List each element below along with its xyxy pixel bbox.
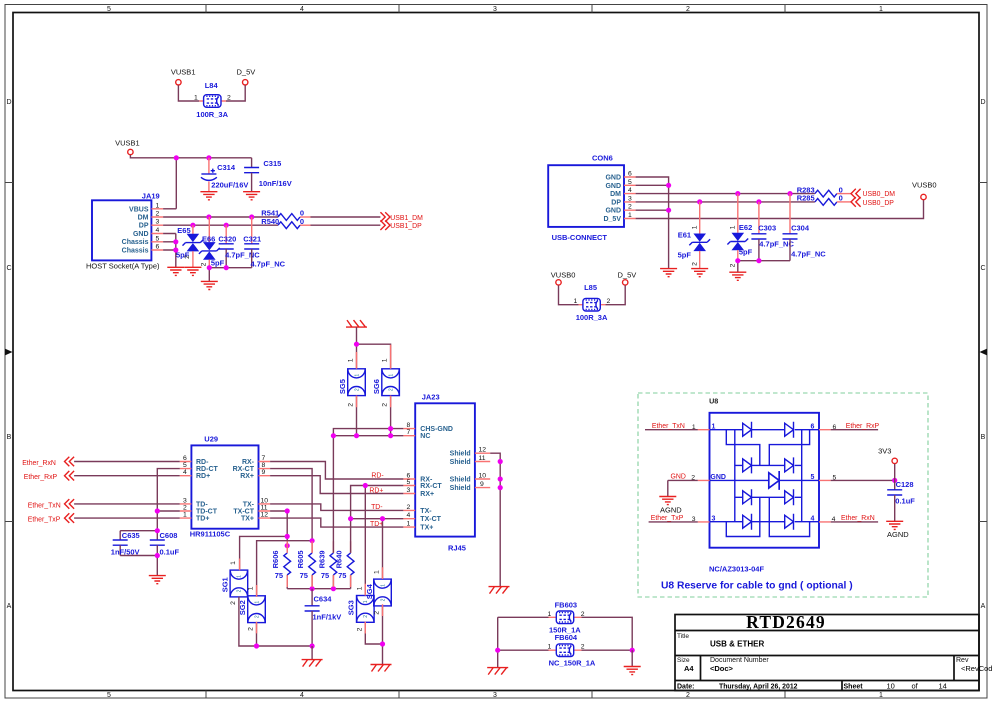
ground under E65 xyxy=(184,267,201,275)
wire SG5 pin2 to CHS net xyxy=(356,396,358,436)
svg-text:RD+: RD+ xyxy=(369,487,383,494)
svg-text:Ether_TxP: Ether_TxP xyxy=(28,517,61,524)
offpage USB1_DM xyxy=(380,212,423,222)
wire SG3/SG4 pin2 down xyxy=(365,606,382,664)
svg-text:14: 14 xyxy=(939,682,947,691)
svg-text:RX-CT: RX-CT xyxy=(420,483,442,490)
svg-text:R639: R639 xyxy=(317,550,326,568)
svg-text:11: 11 xyxy=(479,455,486,462)
svg-text:DP: DP xyxy=(611,199,621,206)
resistor R606 75 xyxy=(271,550,290,588)
ground under C608 xyxy=(149,576,166,584)
svg-text:3: 3 xyxy=(183,497,187,504)
svg-text:U8 Reserve for cable to gnd (: U8 Reserve for cable to gnd ( optional ) xyxy=(661,581,853,592)
svg-text:5: 5 xyxy=(407,479,411,486)
ground under E62 bus xyxy=(729,272,746,280)
svg-text:D: D xyxy=(980,99,985,106)
wire DM net xyxy=(163,216,278,218)
offpage USB1_DP xyxy=(380,220,422,230)
svg-text:Shield: Shield xyxy=(450,451,471,458)
svg-text:2: 2 xyxy=(247,627,254,631)
svg-text:R640: R640 xyxy=(335,550,344,568)
wire USB0 DP net xyxy=(636,201,815,203)
svg-text:RD-CT: RD-CT xyxy=(196,466,218,473)
svg-text:2: 2 xyxy=(230,601,237,605)
wire JA23 RX-CT to R640/SG3 xyxy=(351,486,404,596)
svg-text:1: 1 xyxy=(230,561,237,565)
transformer U29 HR911105C xyxy=(180,435,270,539)
svg-text:2: 2 xyxy=(156,211,160,218)
resistor R605 75 xyxy=(296,550,315,588)
ferrite bead L84 xyxy=(194,81,231,119)
svg-text:DM: DM xyxy=(610,191,621,198)
diode E65 xyxy=(176,225,203,267)
svg-text:6: 6 xyxy=(156,244,160,251)
wire U8 pin4 Ether_RxN xyxy=(831,521,878,523)
power VUSB0 (L85) xyxy=(551,271,576,285)
ground under FB right xyxy=(624,667,641,675)
svg-text:USB1_DM: USB1_DM xyxy=(390,215,423,222)
wire SG2 pin2 down xyxy=(256,622,258,646)
wire FB right to ground xyxy=(631,650,633,666)
offpage USB0_DM xyxy=(851,189,895,199)
svg-text:RX+: RX+ xyxy=(240,473,254,480)
chassis ground under JA23 shield xyxy=(489,587,510,594)
chassis ground top (SG5/SG6) xyxy=(346,320,367,327)
wire RX- staircase xyxy=(270,462,403,480)
svg-text:2: 2 xyxy=(686,6,690,13)
svg-text:USB1_DP: USB1_DP xyxy=(390,223,422,230)
svg-text:Ether_TxN: Ether_TxN xyxy=(652,423,685,430)
wire DP net xyxy=(163,224,278,226)
wire C634 to chassis xyxy=(311,646,313,659)
wire SG2 branch xyxy=(257,541,313,597)
chassis ground under FB left xyxy=(487,668,508,675)
spark gap SG4 xyxy=(365,570,391,615)
svg-text:GND: GND xyxy=(605,208,621,215)
wire cap top/bottom buses xyxy=(120,531,157,576)
svg-text:Ether_RxN: Ether_RxN xyxy=(22,460,56,467)
capacitor C304 xyxy=(783,194,827,261)
svg-text:FB603: FB603 xyxy=(555,600,578,609)
svg-text:75: 75 xyxy=(300,571,308,580)
svg-text:RD-: RD- xyxy=(196,459,209,466)
svg-text:VUSB1: VUSB1 xyxy=(171,68,196,77)
capacitor C314 xyxy=(201,158,249,192)
svg-text:10: 10 xyxy=(479,473,487,480)
svg-text:1: 1 xyxy=(348,358,355,362)
wire 3V3 to node xyxy=(894,464,896,481)
svg-text:C634: C634 xyxy=(314,595,333,604)
svg-text:1nF/1kV: 1nF/1kV xyxy=(313,613,342,622)
capacitor C635 xyxy=(111,531,140,557)
capacitor C634 xyxy=(305,589,342,646)
svg-text:Shield: Shield xyxy=(450,459,471,466)
ground AGND under U8 pin2 xyxy=(659,497,682,515)
svg-text:A: A xyxy=(981,603,986,610)
svg-text:220uF/16V: 220uF/16V xyxy=(211,180,248,189)
svg-text:5: 5 xyxy=(156,235,160,242)
svg-text:1: 1 xyxy=(356,586,363,590)
svg-text:A: A xyxy=(7,603,12,610)
spark gap SG3 xyxy=(347,586,374,631)
svg-text:U29: U29 xyxy=(204,435,218,444)
svg-text:1: 1 xyxy=(729,225,736,229)
svg-text:1: 1 xyxy=(574,298,578,305)
svg-text:12: 12 xyxy=(261,512,269,519)
svg-text:B: B xyxy=(7,434,12,441)
svg-text:of: of xyxy=(912,682,919,691)
power 3V3 xyxy=(878,447,897,464)
wire Ether_TxP into U8 pin3 xyxy=(649,521,698,523)
chassis ground under C634 xyxy=(302,660,323,667)
svg-text:5pF: 5pF xyxy=(211,259,225,268)
wire CON6 gnd pins xyxy=(636,177,669,269)
power VUSB1 (main) xyxy=(115,139,140,155)
ground under C314 xyxy=(200,192,217,200)
svg-text:2: 2 xyxy=(607,298,611,305)
svg-text:2: 2 xyxy=(691,262,698,266)
svg-text:RD-: RD- xyxy=(371,473,383,480)
wire D_5V to L85 pin2 xyxy=(605,285,625,304)
pin stubs SG/R group xyxy=(240,541,351,633)
svg-text:1: 1 xyxy=(247,586,254,590)
svg-text:2: 2 xyxy=(581,611,585,618)
wire U8 pin5 to C128 node xyxy=(831,479,895,481)
svg-text:NC/AZ3013-04F: NC/AZ3013-04F xyxy=(709,565,764,574)
connector JA23 RJ45 xyxy=(403,393,490,553)
svg-text:1: 1 xyxy=(407,521,411,528)
wire Ether_RxN xyxy=(74,461,180,463)
wire Ether_TxN into U8 pin1 xyxy=(645,429,698,431)
svg-text:2: 2 xyxy=(407,504,411,511)
wire USB0 DM net xyxy=(636,193,815,195)
svg-text:C635: C635 xyxy=(122,531,140,540)
svg-text:D_5V: D_5V xyxy=(603,216,621,223)
resistor R540 0 xyxy=(261,217,304,229)
svg-text:10: 10 xyxy=(261,497,269,504)
svg-text:CON6: CON6 xyxy=(592,153,613,162)
svg-text:SG3: SG3 xyxy=(347,600,356,615)
svg-text:1: 1 xyxy=(382,358,389,362)
wire TD-CT join xyxy=(157,510,180,512)
svg-text:VUSB1: VUSB1 xyxy=(115,139,140,148)
svg-text:7: 7 xyxy=(262,455,266,462)
svg-text:1: 1 xyxy=(548,611,552,618)
resistor R285 0 xyxy=(797,194,851,206)
wire Ether_RxP xyxy=(74,475,180,477)
offpage Ether_TxP xyxy=(28,513,74,523)
svg-text:1: 1 xyxy=(879,692,883,699)
svg-text:4: 4 xyxy=(300,692,304,699)
svg-text:0.1uF: 0.1uF xyxy=(160,547,180,556)
resistor R541 0 xyxy=(261,209,304,221)
svg-text:0.1uF: 0.1uF xyxy=(895,497,915,506)
svg-text:TX-: TX- xyxy=(420,508,432,515)
svg-text:1: 1 xyxy=(548,644,552,651)
node VBUS junctions xyxy=(174,155,179,160)
svg-text:E66: E66 xyxy=(202,234,215,243)
svg-text:R605: R605 xyxy=(296,550,305,568)
svg-text:2: 2 xyxy=(581,644,585,651)
wire Ether_TxP xyxy=(74,517,180,519)
svg-text:Ether_TxP: Ether_TxP xyxy=(651,515,684,522)
wire JA19 gnd pins xyxy=(163,234,176,268)
ground under E66 bus xyxy=(201,281,218,289)
U8 optional region dashed box xyxy=(638,393,928,597)
capacitor C303 xyxy=(751,202,794,261)
wire SG1 pin2 down xyxy=(239,597,312,646)
spark gap SG6 xyxy=(372,358,400,407)
wire SG1 branch xyxy=(240,536,288,570)
svg-text:L85: L85 xyxy=(584,283,597,292)
power VUSB1 (L84) xyxy=(171,68,196,86)
wire E62/C303/C304 ground bus xyxy=(738,261,790,273)
svg-text:TX-CT: TX-CT xyxy=(420,516,441,523)
svg-text:USB & ETHER: USB & ETHER xyxy=(710,640,764,649)
svg-text:5pF: 5pF xyxy=(678,250,692,259)
svg-text:11: 11 xyxy=(261,505,268,512)
ferrite bead L85 xyxy=(574,283,611,322)
svg-text:1: 1 xyxy=(691,225,698,229)
svg-text:Ether_RxP: Ether_RxP xyxy=(24,474,58,481)
svg-text:VBUS: VBUS xyxy=(129,206,149,213)
svg-text:E65: E65 xyxy=(177,226,190,235)
svg-text:DP: DP xyxy=(139,223,149,230)
svg-text:D_5V: D_5V xyxy=(237,68,256,77)
resistor R640 75 xyxy=(335,550,354,588)
svg-text:AGND: AGND xyxy=(887,530,909,539)
offpage Ether_RxP xyxy=(24,471,74,481)
svg-text:USB-CONNECT: USB-CONNECT xyxy=(552,233,608,242)
svg-text:NC: NC xyxy=(420,433,430,440)
svg-text:CHS-GND: CHS-GND xyxy=(420,426,453,433)
svg-text:Shield: Shield xyxy=(450,477,471,484)
svg-text:L84: L84 xyxy=(205,81,219,90)
wire VBUS rail xyxy=(130,155,251,209)
svg-text:8: 8 xyxy=(262,462,266,469)
svg-text:<Doc>: <Doc> xyxy=(710,664,734,673)
svg-text:2: 2 xyxy=(628,204,632,211)
svg-text:6: 6 xyxy=(183,455,187,462)
svg-text:2: 2 xyxy=(348,403,355,407)
svg-text:C608: C608 xyxy=(160,531,178,540)
svg-text:2: 2 xyxy=(686,692,690,699)
svg-text:Document Number: Document Number xyxy=(710,657,769,664)
diode array U8 NC/AZ3013-04F xyxy=(691,397,836,574)
svg-text:TD+: TD+ xyxy=(196,516,209,523)
capacitor C315 xyxy=(244,158,292,192)
svg-text:DM: DM xyxy=(138,215,149,222)
svg-text:Size: Size xyxy=(677,657,690,664)
wire D_5V net to VUSB0 xyxy=(636,200,924,219)
svg-text:RD+: RD+ xyxy=(196,473,210,480)
svg-text:RX+: RX+ xyxy=(420,491,434,498)
wire VUSB1 to L84 pin1 xyxy=(178,85,199,101)
svg-text:Sheet: Sheet xyxy=(844,684,864,691)
wire JA23 shield pins xyxy=(490,453,500,586)
capacitor C320 xyxy=(218,225,260,268)
wire SG6 pin2 to CHS net xyxy=(390,396,392,436)
svg-text:2: 2 xyxy=(374,611,381,615)
svg-text:Shield: Shield xyxy=(450,485,471,492)
svg-text:1: 1 xyxy=(156,202,160,209)
svg-text:VUSB0: VUSB0 xyxy=(551,271,576,280)
svg-text:5: 5 xyxy=(183,462,187,469)
svg-text:4: 4 xyxy=(300,6,304,13)
svg-text:B: B xyxy=(981,434,986,441)
svg-text:9: 9 xyxy=(480,481,484,488)
svg-text:9: 9 xyxy=(262,469,266,476)
offpage Ether_RxN xyxy=(22,457,74,467)
svg-text:75: 75 xyxy=(321,571,329,580)
svg-text:C303: C303 xyxy=(758,224,776,233)
resistor R639 75 xyxy=(317,550,336,588)
svg-text:5: 5 xyxy=(107,6,111,13)
ground AGND under C128 xyxy=(886,521,909,539)
svg-text:AGND: AGND xyxy=(660,505,682,514)
ferrite bead FB603 xyxy=(498,600,633,650)
svg-text:1: 1 xyxy=(879,6,883,13)
svg-text:2: 2 xyxy=(201,262,208,266)
svg-text:USB0_DP: USB0_DP xyxy=(863,200,895,207)
svg-text:10nF/16V: 10nF/16V xyxy=(259,179,292,188)
wire JA19 pin1 to VBUS xyxy=(163,208,176,210)
svg-text:FB604: FB604 xyxy=(555,633,578,642)
svg-text:TX-CT: TX-CT xyxy=(233,509,254,516)
svg-text:TX+: TX+ xyxy=(420,525,433,532)
svg-text:C321: C321 xyxy=(243,234,261,243)
svg-text:R285: R285 xyxy=(797,194,815,203)
svg-text:NC_150R_1A: NC_150R_1A xyxy=(549,659,596,668)
svg-text:4.7pF_NC: 4.7pF_NC xyxy=(759,240,794,249)
svg-text:Ether_RxP: Ether_RxP xyxy=(846,423,880,430)
svg-text:R606: R606 xyxy=(271,550,280,568)
svg-text:TX-: TX- xyxy=(243,501,255,508)
svg-text:A4: A4 xyxy=(684,664,694,673)
svg-text:2: 2 xyxy=(729,263,736,267)
resistor R283 0 xyxy=(797,185,851,197)
wire D_5V to L84 pin2 xyxy=(226,85,245,101)
svg-text:GND: GND xyxy=(605,183,621,190)
svg-text:JA19: JA19 xyxy=(142,191,160,200)
power VUSB0 (right) xyxy=(912,181,937,200)
svg-text:100R_3A: 100R_3A xyxy=(576,313,608,322)
wire E66/C320/C321 ground bus xyxy=(209,268,251,282)
svg-text:USB0_DM: USB0_DM xyxy=(863,191,896,198)
svg-text:JA23: JA23 xyxy=(422,393,440,402)
wire chassis to SG5/SG6 xyxy=(357,327,391,369)
svg-text:1: 1 xyxy=(628,212,632,219)
svg-text:Date:: Date: xyxy=(677,684,695,691)
svg-text:4: 4 xyxy=(407,512,411,519)
svg-text:R540: R540 xyxy=(261,217,279,226)
wire JA23 CHS-GND row xyxy=(333,429,403,553)
svg-text:0: 0 xyxy=(300,217,304,226)
wire TX+ staircase xyxy=(270,518,403,527)
svg-text:SG4: SG4 xyxy=(365,583,374,599)
power D_5V (L84) xyxy=(237,68,256,86)
svg-text:Rev: Rev xyxy=(956,657,969,664)
svg-text:1: 1 xyxy=(194,95,198,102)
svg-text:TD-: TD- xyxy=(196,501,208,508)
svg-text:<RevCode: <RevCode xyxy=(961,664,992,673)
svg-text:E62: E62 xyxy=(739,223,752,232)
offpage USB0_DP xyxy=(851,197,894,207)
capacitor C321 xyxy=(243,217,285,269)
svg-text:C314: C314 xyxy=(217,163,236,172)
svg-text:3: 3 xyxy=(156,219,160,226)
svg-text:C: C xyxy=(980,265,985,272)
svg-text:2: 2 xyxy=(382,403,389,407)
connector JA19 HOST Socket(A Type) xyxy=(86,191,163,270)
connector CON6 USB-CONNECT xyxy=(548,153,635,242)
spark gap SG5 xyxy=(338,358,366,407)
svg-text:D_5V: D_5V xyxy=(618,271,637,280)
svg-text:D: D xyxy=(6,99,11,106)
svg-text:3: 3 xyxy=(493,692,497,699)
svg-text:4.7pF_NC: 4.7pF_NC xyxy=(251,260,286,269)
ground under CON6 xyxy=(660,269,677,277)
svg-text:Ether_TxN: Ether_TxN xyxy=(28,502,61,509)
wire VUSB0 to L85 pin1 xyxy=(559,285,579,304)
svg-text:1: 1 xyxy=(374,570,381,574)
spark gap SG1 xyxy=(220,561,247,605)
svg-text:Thursday, April 26, 2012: Thursday, April 26, 2012 xyxy=(719,684,798,691)
wire RX+ staircase xyxy=(270,476,403,494)
svg-text:4: 4 xyxy=(628,187,632,194)
svg-text:Ether_RxN: Ether_RxN xyxy=(841,515,875,522)
wire RX-CT to R605 xyxy=(270,469,312,553)
capacitor C608 xyxy=(150,531,180,557)
svg-text:4.7pF_NC: 4.7pF_NC xyxy=(791,250,826,259)
svg-text:Chassis: Chassis xyxy=(122,239,149,246)
diode E66 xyxy=(199,217,225,268)
svg-text:HR911105C: HR911105C xyxy=(190,530,231,539)
svg-text:6: 6 xyxy=(628,171,632,178)
chassis ground under SG3/SG4 xyxy=(371,665,392,672)
svg-text:100R_3A: 100R_3A xyxy=(196,110,228,119)
svg-text:RX-CT: RX-CT xyxy=(233,466,255,473)
wire JA23 TX-CT row xyxy=(351,519,404,579)
svg-text:HOST Socket(A Type): HOST Socket(A Type) xyxy=(86,262,160,271)
svg-text:7: 7 xyxy=(407,429,411,436)
svg-text:75: 75 xyxy=(275,571,283,580)
svg-text:C320: C320 xyxy=(218,234,236,243)
ground under E61 xyxy=(691,269,708,277)
svg-text:4.7pF_NC: 4.7pF_NC xyxy=(225,251,260,260)
svg-text:TD+: TD+ xyxy=(370,521,383,528)
svg-text:U8: U8 xyxy=(709,397,718,406)
wire TX-CT to R606 xyxy=(270,511,287,553)
svg-text:C: C xyxy=(6,265,11,272)
svg-text:Title: Title xyxy=(677,633,689,640)
offpage Ether_TxN xyxy=(28,499,74,509)
svg-text:0: 0 xyxy=(839,194,843,203)
svg-text:RTD2649: RTD2649 xyxy=(746,612,826,632)
spark gap SG2 xyxy=(238,586,265,631)
svg-text:5pF: 5pF xyxy=(739,248,753,257)
svg-text:2: 2 xyxy=(227,95,231,102)
svg-text:3: 3 xyxy=(493,6,497,13)
svg-text:SG6: SG6 xyxy=(372,379,381,394)
diode E62 xyxy=(727,194,752,268)
svg-text:3V3: 3V3 xyxy=(878,447,891,456)
svg-text:VUSB0: VUSB0 xyxy=(912,181,937,190)
ferrite bead FB604 xyxy=(498,617,633,667)
power D_5V (L85) xyxy=(618,271,637,285)
svg-text:C304: C304 xyxy=(791,224,810,233)
